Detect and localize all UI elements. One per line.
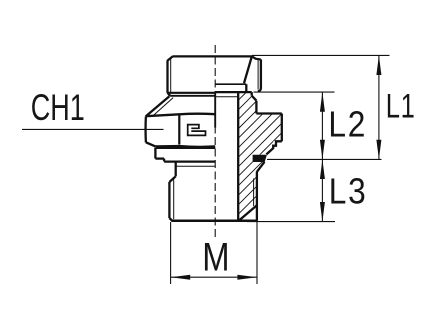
M extension line right [256, 222, 258, 284]
hex bottom slant left [146, 142, 156, 146]
stem top-left chamfer [168, 56, 173, 60]
washer top left [155, 147, 215, 149]
stud crest left [168, 182, 170, 218]
L3 arrow down [320, 202, 325, 222]
L1 arrow down [376, 140, 381, 160]
centerline [214, 45, 216, 240]
stem thread root line right (thin) [257, 59, 259, 90]
M extension line left [170, 222, 172, 284]
hex chamfer tangent line left (thin) [154, 98, 174, 116]
seal cross-section blob right (elastomer) [253, 155, 267, 162]
washer-seal step [163, 159, 165, 162]
hex bottom edge [155, 145, 215, 148]
hex left face [144, 116, 147, 142]
hatch region B: body cross-section right [89, 40, 432, 240]
stud crest right [256, 172, 258, 221]
shoulder top (section) [215, 91, 252, 93]
stem top-right chamfer (section) [252, 56, 261, 59]
hex flat top right [256, 112, 281, 114]
shoulder step right [251, 92, 253, 96]
CH1 leader line [22, 128, 164, 130]
hex right face (section) [281, 114, 283, 142]
stud end face [172, 220, 258, 223]
internal 24-degree cone (section) [244, 56, 252, 83]
bore wall (section) [237, 92, 239, 221]
dimension L3 line [321, 159, 323, 221]
stem top edge [173, 55, 253, 57]
extension line shoulder (L2) [254, 91, 335, 93]
L2 arrow down [320, 140, 325, 160]
logo spiral mark on hex face [188, 125, 206, 136]
hex facet edge [178, 116, 180, 145]
hex top silhouette [146, 114, 216, 117]
extension line stud end (L3) [247, 221, 335, 223]
seal bottom edge [164, 161, 215, 163]
shoulder lower edge left half [170, 95, 215, 97]
section cut solid centerline segment [214, 92, 216, 128]
stem bottom-left chamfer [168, 93, 171, 96]
L2 arrow up [320, 92, 325, 112]
throat wall [245, 84, 247, 92]
hex chamfer cone slant right (section) [252, 96, 257, 101]
shank left edge [175, 161, 177, 176]
dimension L2 line [321, 92, 323, 159]
stud end chamfer (section) [239, 205, 257, 221]
stem right crest edge (section) [258, 59, 261, 91]
stud root line left (thin) [173, 179, 175, 220]
svg-text:M: M [202, 235, 229, 280]
M arrow right [237, 275, 257, 280]
svg-text:L3: L3 [329, 172, 368, 212]
stem thread root line left (thin) [170, 59, 172, 93]
internal bore step line [215, 96, 238, 98]
svg-text:L2: L2 [328, 105, 367, 145]
svg-text:CH1: CH1 [31, 86, 85, 128]
L3 arrow up [320, 159, 325, 179]
washer step right profile [266, 141, 281, 154]
M arrow left [171, 275, 191, 280]
stem left edge [166, 60, 168, 93]
thread runout chamfer left [169, 176, 175, 182]
dimension M line [171, 276, 257, 278]
runout slant right (section) [257, 162, 265, 172]
stud bottom chamfer left [169, 218, 172, 221]
hex chamfer cone silhouette left [146, 96, 170, 116]
cone throat flat [215, 83, 246, 85]
extension line top (L1) [252, 54, 390, 56]
stem bottom edge left half [168, 92, 216, 94]
washer bottom left [155, 157, 164, 159]
svg-text:L1: L1 [386, 88, 416, 126]
dimension L1 line [378, 55, 380, 159]
hex cone wall right [255, 101, 257, 114]
L1 arrow up [376, 55, 381, 75]
stud root line right (thin) [253, 179, 255, 207]
thread start line (thin) [176, 165, 216, 167]
extension line seat (L1/L2/L3) [267, 158, 382, 160]
washer left edge [154, 148, 156, 159]
